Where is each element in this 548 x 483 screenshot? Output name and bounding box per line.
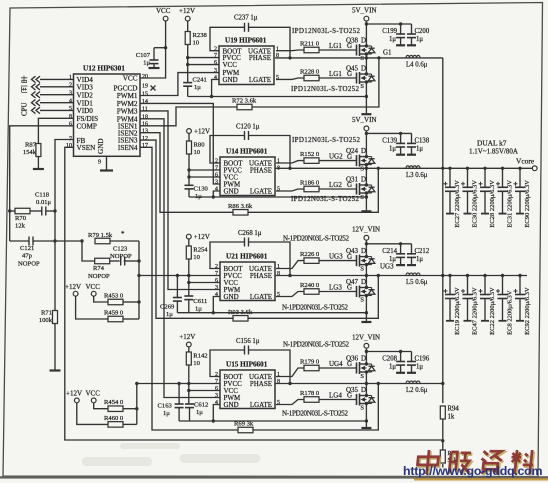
resistor R254: [186, 246, 208, 261]
svg-text:10: 10: [193, 360, 200, 367]
wire ISEN1: [140, 107, 237, 126]
svg-text:EC27 2200μ/6.3V: EC27 2200μ/6.3V: [454, 180, 461, 228]
node: [53, 239, 56, 242]
svg-text:PHASE: PHASE: [250, 380, 272, 388]
label LG2: [329, 181, 352, 189]
node: [135, 382, 138, 385]
wire: [366, 351, 411, 353]
svg-text:4: 4: [214, 75, 217, 81]
svg-text:5: 5: [276, 75, 279, 81]
svg-text:U14 HIP6601: U14 HIP6601: [226, 148, 268, 156]
transistor Q45: [346, 65, 375, 91]
terminal +12V: [65, 283, 81, 296]
svg-text:R178 0: R178 0: [300, 390, 320, 397]
node: [377, 167, 380, 170]
wire: [189, 390, 220, 392]
resistor R459: [104, 310, 124, 322]
svg-text:R70: R70: [15, 215, 27, 222]
node: [365, 350, 368, 353]
ground: [149, 67, 160, 69]
capacitor EC92: [514, 274, 532, 335]
capacitor C611: [184, 296, 207, 313]
wire: [249, 136, 291, 169]
svg-text:1μ: 1μ: [195, 306, 202, 313]
capacitor C612: [185, 402, 208, 422]
wire: [140, 21, 166, 78]
svg-text:U15 HIP6601: U15 HIP6601: [226, 361, 268, 369]
wire: [40, 78, 74, 80]
wire: [110, 240, 139, 242]
svg-text:R226 0: R226 0: [300, 251, 320, 258]
wire: [138, 241, 140, 276]
capacitor C200: [407, 24, 430, 45]
capacitor C214: [382, 244, 405, 265]
ground: [361, 321, 371, 323]
svg-text:2: 2: [214, 46, 217, 52]
svg-text:GND: GND: [97, 138, 105, 154]
svg-text:S: S: [360, 373, 364, 380]
svg-text:7: 7: [214, 53, 217, 59]
svg-text:GND: GND: [223, 76, 238, 84]
resistor R460: [104, 415, 124, 427]
terminal VCC: [86, 390, 101, 403]
capacitor EC90: [514, 167, 532, 228]
node: [365, 22, 368, 25]
watermark: [403, 450, 548, 481]
node: [365, 167, 368, 170]
svg-text:PWM1: PWM1: [117, 92, 138, 100]
wire: [249, 27, 291, 58]
svg-text:VCC: VCC: [86, 390, 101, 398]
svg-text:R453 0: R453 0: [104, 293, 124, 300]
wire: [188, 239, 190, 246]
svg-text:EC47 2200μ/6.3V: EC47 2200μ/6.3V: [472, 287, 479, 335]
svg-text:EC28 2200μ/6.3V: EC28 2200μ/6.3V: [489, 180, 496, 228]
wire: [365, 240, 367, 256]
wire: [249, 350, 291, 384]
node: [377, 56, 380, 59]
svg-text:C199: C199: [382, 28, 397, 35]
wire gate: [276, 161, 304, 163]
svg-text:1μ: 1μ: [389, 36, 396, 43]
svg-text:CPU: CPU: [21, 102, 29, 116]
svg-text:18: 18: [142, 115, 148, 121]
svg-text:19: 19: [142, 84, 148, 90]
wire: [365, 165, 367, 169]
svg-text:R228 0: R228 0: [300, 69, 320, 76]
node: [80, 239, 83, 242]
svg-text:1μ: 1μ: [416, 364, 423, 371]
svg-text:LG1: LG1: [329, 70, 342, 78]
svg-text:10: 10: [194, 149, 201, 156]
wire: [210, 350, 244, 377]
wire: [77, 403, 108, 425]
capacitor C163: [158, 403, 184, 422]
node: [137, 300, 140, 303]
wire FB: [55, 140, 74, 312]
resistor R86: [228, 203, 253, 215]
svg-text:VCC: VCC: [86, 283, 101, 291]
CPU socket connector label: [21, 76, 29, 117]
svg-text:D: D: [361, 278, 366, 286]
node: [212, 419, 215, 422]
wire: [154, 47, 166, 49]
svg-text:1μ: 1μ: [389, 145, 396, 152]
driver U14 HIP6601: [215, 148, 280, 196]
svg-text:7: 7: [215, 379, 218, 385]
svg-text:R142: R142: [193, 353, 207, 360]
terminal +12V: [179, 333, 195, 347]
svg-text:LG3: LG3: [329, 283, 342, 291]
svg-text:D: D: [361, 37, 366, 45]
svg-text:L5 0.6μ: L5 0.6μ: [406, 279, 428, 286]
label output spec: [469, 148, 518, 156]
wire: [94, 296, 108, 302]
svg-text:U19 HIP6601: U19 HIP6601: [225, 37, 267, 45]
svg-text:+12V: +12V: [66, 390, 82, 398]
svg-text:S: S: [360, 166, 364, 173]
wire PWM3: [140, 111, 220, 290]
wire: [46, 210, 55, 212]
svg-text:C139: C139: [382, 137, 397, 144]
svg-text:1: 1: [277, 264, 280, 270]
label LG1: [329, 42, 352, 50]
svg-text:N-1PD20N03L-S-TO252: N-1PD20N03L-S-TO252: [283, 341, 350, 349]
svg-text:154k: 154k: [23, 149, 37, 156]
svg-text:R179 0: R179 0: [300, 359, 320, 366]
wire: [187, 45, 189, 83]
wire PVCC row: [137, 383, 220, 385]
wire: [442, 419, 444, 450]
svg-text:+12V: +12V: [179, 7, 195, 15]
svg-text:16: 16: [142, 122, 148, 128]
label package top: [283, 235, 350, 243]
resistor R94: [440, 406, 459, 421]
wire: [365, 372, 367, 384]
svg-text:http://www.go-gddq.com: http://www.go-gddq.com: [403, 464, 542, 478]
svg-text:VID2: VID2: [77, 91, 94, 99]
wire: [123, 423, 137, 425]
wire: [319, 188, 357, 190]
resistor R71: [39, 310, 58, 325]
svg-text:0.01μ: 0.01μ: [36, 199, 52, 206]
capacitor C241: [183, 77, 207, 97]
svg-text:8: 8: [277, 271, 280, 277]
terminal +12V: [186, 233, 209, 241]
transistor Q38: [346, 37, 375, 63]
svg-text:C214: C214: [382, 248, 397, 255]
svg-text:G: G: [347, 70, 352, 78]
label G1: [383, 49, 392, 57]
capacitor C269: [160, 298, 182, 319]
resistor R74: [88, 258, 110, 280]
svg-text:C107: C107: [136, 52, 151, 59]
terminal +12V: [66, 390, 82, 403]
svg-text:1.1V~1.85V/80A: 1.1V~1.85V/80A: [469, 148, 518, 156]
svg-text:1μ: 1μ: [163, 410, 170, 417]
terminal VCC: [156, 7, 171, 21]
node: [137, 259, 140, 262]
svg-text:C196: C196: [415, 356, 430, 363]
svg-text:R71: R71: [41, 310, 52, 317]
svg-text:PHASE: PHASE: [250, 272, 272, 280]
node: [212, 195, 215, 198]
svg-text:4: 4: [69, 99, 72, 105]
label LG1: [329, 70, 352, 78]
node: [176, 274, 179, 277]
svg-text:1μ: 1μ: [389, 364, 396, 371]
wire U21 GND: [213, 297, 220, 313]
svg-text:6: 6: [214, 60, 217, 66]
svg-text:LG2: LG2: [329, 181, 342, 189]
capacitor EC31: [496, 167, 514, 228]
wire: [210, 242, 244, 269]
wire: [189, 282, 220, 284]
svg-text:EC8 2200μ/6.3V: EC8 2200μ/6.3V: [507, 290, 514, 335]
node: [365, 419, 368, 422]
svg-text:IPD12N03L-S-TO252: IPD12N03L-S-TO252: [292, 27, 361, 35]
node: [377, 382, 380, 385]
svg-text:10: 10: [193, 254, 200, 261]
capacitor C139: [382, 133, 405, 154]
svg-text:+12V: +12V: [179, 333, 195, 341]
wire: [179, 420, 366, 422]
svg-text:GND: GND: [224, 188, 239, 196]
wire FS/DIS: [38, 118, 73, 143]
svg-text:NOPOP: NOPOP: [88, 273, 110, 280]
svg-text:3: 3: [69, 91, 72, 97]
wire: [365, 265, 367, 276]
node: [288, 274, 291, 277]
wire: [177, 312, 366, 314]
svg-text:VID0: VID0: [77, 107, 94, 115]
wire: [189, 176, 220, 178]
node: [399, 132, 402, 135]
wire: [319, 160, 357, 162]
wire gate: [276, 49, 304, 52]
wire: [94, 403, 108, 409]
capacitor C118: [35, 192, 52, 216]
svg-text:G: G: [347, 284, 352, 292]
capacitor EC8: [496, 274, 514, 335]
inductor L4: [406, 55, 428, 68]
wire VSEN: [65, 147, 443, 440]
svg-text:C121: C121: [20, 245, 34, 252]
svg-text:R186 0: R186 0: [300, 180, 320, 187]
svg-text:+12V: +12V: [194, 128, 210, 136]
wire U14 GND: [213, 191, 220, 197]
svg-text:LGATE: LGATE: [249, 76, 271, 84]
wire: [40, 102, 74, 104]
wire: [365, 131, 367, 157]
svg-text:N-1PD20N03L-S-TO252: N-1PD20N03L-S-TO252: [282, 410, 349, 418]
ground: [361, 427, 371, 429]
wire PVCC row: [139, 275, 220, 277]
svg-text:1μ: 1μ: [166, 311, 173, 318]
svg-text:U21 HIP6601: U21 HIP6601: [226, 253, 268, 261]
node: [441, 167, 444, 170]
svg-text:2: 2: [215, 264, 218, 270]
svg-text:G: G: [347, 392, 352, 400]
svg-text:S: S: [360, 405, 364, 412]
node: [365, 242, 368, 245]
svg-text:UG4: UG4: [329, 360, 343, 368]
resistor R179: [300, 359, 320, 371]
resistor R80: [187, 141, 206, 156]
svg-text:6: 6: [215, 386, 218, 392]
node: [365, 311, 368, 314]
resistor R142: [186, 352, 207, 367]
inductor L3: [406, 166, 428, 179]
resistor R178: [300, 390, 320, 402]
svg-text:EC22 2200μ/6.3V: EC22 2200μ/6.3V: [489, 287, 496, 335]
svg-text:1: 1: [277, 372, 280, 378]
resistor R453: [104, 293, 124, 305]
wire main bus: [442, 58, 444, 403]
wire: [366, 132, 411, 134]
wire ISEN4: [140, 147, 238, 430]
wire: [366, 23, 411, 25]
svg-text:13: 13: [142, 129, 148, 135]
svg-text:G1: G1: [383, 49, 392, 57]
driver U21 HIP6601: [215, 253, 280, 302]
svg-text:EC19 2200μ/6.3V: EC19 2200μ/6.3V: [454, 287, 461, 335]
svg-text:IPD12N03L-S-TO252: IPD12N03L-S-TO252: [291, 195, 360, 203]
svg-text:VCC: VCC: [123, 75, 138, 83]
driver U19 HIP6601: [214, 37, 279, 85]
wire: [30, 210, 42, 212]
capacitor C130: [185, 185, 209, 200]
wire: [178, 384, 180, 405]
svg-text:VCC: VCC: [223, 61, 238, 69]
resistor R226: [300, 251, 320, 263]
svg-text:*: *: [121, 230, 125, 238]
wire: [365, 296, 367, 322]
node: [399, 22, 402, 25]
wire U19 GND: [212, 79, 219, 96]
svg-text:EC31 2200μ/6.3V: EC31 2200μ/6.3V: [507, 180, 514, 228]
wire: [365, 348, 367, 364]
terminal 5V_VIN: [352, 116, 377, 131]
svg-text:C163: C163: [158, 403, 173, 410]
svg-text:G: G: [347, 181, 352, 189]
connector chevron VID2: [32, 92, 41, 98]
transistor Q36: [346, 355, 375, 381]
svg-text:10: 10: [193, 40, 200, 47]
wire phase row: [275, 275, 443, 277]
wire: [248, 276, 378, 319]
wire: [188, 259, 190, 296]
svg-text:S: S: [360, 83, 364, 90]
svg-text:LGATE: LGATE: [250, 188, 272, 196]
transistor Q31: [346, 176, 375, 202]
wire: [187, 21, 189, 32]
svg-text:R254: R254: [193, 247, 208, 254]
svg-text:G: G: [347, 360, 352, 368]
wire: [124, 260, 139, 262]
inductor L5: [406, 273, 428, 286]
svg-text:D: D: [361, 65, 366, 73]
svg-text:3: 3: [215, 285, 218, 291]
svg-text:UG2: UG2: [329, 152, 343, 160]
label package top: [292, 27, 361, 35]
svg-text:EC90 2200μ/6.3V: EC90 2200μ/6.3V: [524, 180, 531, 228]
node: [441, 274, 444, 277]
svg-text:LG4: LG4: [329, 391, 342, 399]
resistor R238: [185, 32, 207, 47]
svg-text:5: 5: [277, 292, 280, 298]
label package bottom: [291, 85, 360, 93]
svg-text:3: 3: [215, 180, 218, 186]
wire: [249, 242, 291, 276]
wire PWM2: [140, 103, 220, 184]
svg-text:VCC: VCC: [156, 7, 171, 15]
resistor R96: [440, 450, 458, 464]
svg-text:UG3: UG3: [329, 252, 343, 260]
wire: [40, 86, 74, 88]
svg-text:S: S: [360, 194, 364, 201]
svg-text:12V_VIN: 12V_VIN: [352, 334, 380, 342]
node: [186, 56, 189, 59]
svg-text:COMP: COMP: [77, 122, 97, 130]
label UG4: [329, 360, 352, 368]
capacitor EC22: [479, 274, 497, 335]
svg-text:12: 12: [142, 136, 148, 142]
resistor R72: [232, 98, 257, 110]
label LG3: [329, 283, 352, 291]
svg-text:S: S: [360, 297, 364, 304]
node: [288, 167, 291, 170]
svg-text:R454 0: R454 0: [104, 399, 124, 406]
wire lower rail: [443, 275, 527, 277]
label package bottom: [282, 410, 349, 418]
svg-text:R238: R238: [193, 32, 208, 39]
connector chevron VID4: [32, 76, 41, 82]
wire: [319, 49, 357, 51]
svg-text:20: 20: [142, 74, 148, 80]
wire: [189, 196, 366, 198]
wire: [138, 276, 140, 320]
resistor R70: [15, 208, 30, 229]
svg-text:LGATE: LGATE: [250, 401, 272, 409]
wire: [37, 157, 39, 169]
wire: [136, 384, 138, 425]
ground: [100, 156, 113, 170]
wire PWM1: [140, 73, 219, 96]
svg-text:N-1PD20N03L-S-TO252: N-1PD20N03L-S-TO252: [283, 235, 350, 243]
wire: [442, 464, 444, 468]
svg-text:1: 1: [69, 75, 72, 81]
connector chevron VID3: [32, 84, 41, 90]
svg-text:G: G: [347, 42, 352, 50]
wire: [365, 82, 367, 113]
wire: [54, 323, 56, 370]
svg-text:R211 0: R211 0: [300, 41, 320, 48]
svg-text:IPD12N03L-S-TO252: IPD12N03L-S-TO252: [292, 136, 361, 144]
label package bottom: [282, 304, 349, 312]
svg-text:6: 6: [215, 173, 218, 179]
wire: [188, 57, 219, 59]
capacitor C237: [234, 15, 258, 32]
svg-text:2: 2: [215, 159, 218, 165]
wire: [110, 260, 120, 262]
wire U15 GND: [213, 405, 220, 422]
svg-text:R86 3.6k: R86 3.6k: [228, 203, 253, 210]
wire: [40, 94, 74, 96]
svg-text:C268 1μ: C268 1μ: [238, 230, 262, 237]
svg-text:N-1PD20N03L-S-TO252: N-1PD20N03L-S-TO252: [282, 304, 349, 312]
wire gate: [276, 261, 304, 269]
